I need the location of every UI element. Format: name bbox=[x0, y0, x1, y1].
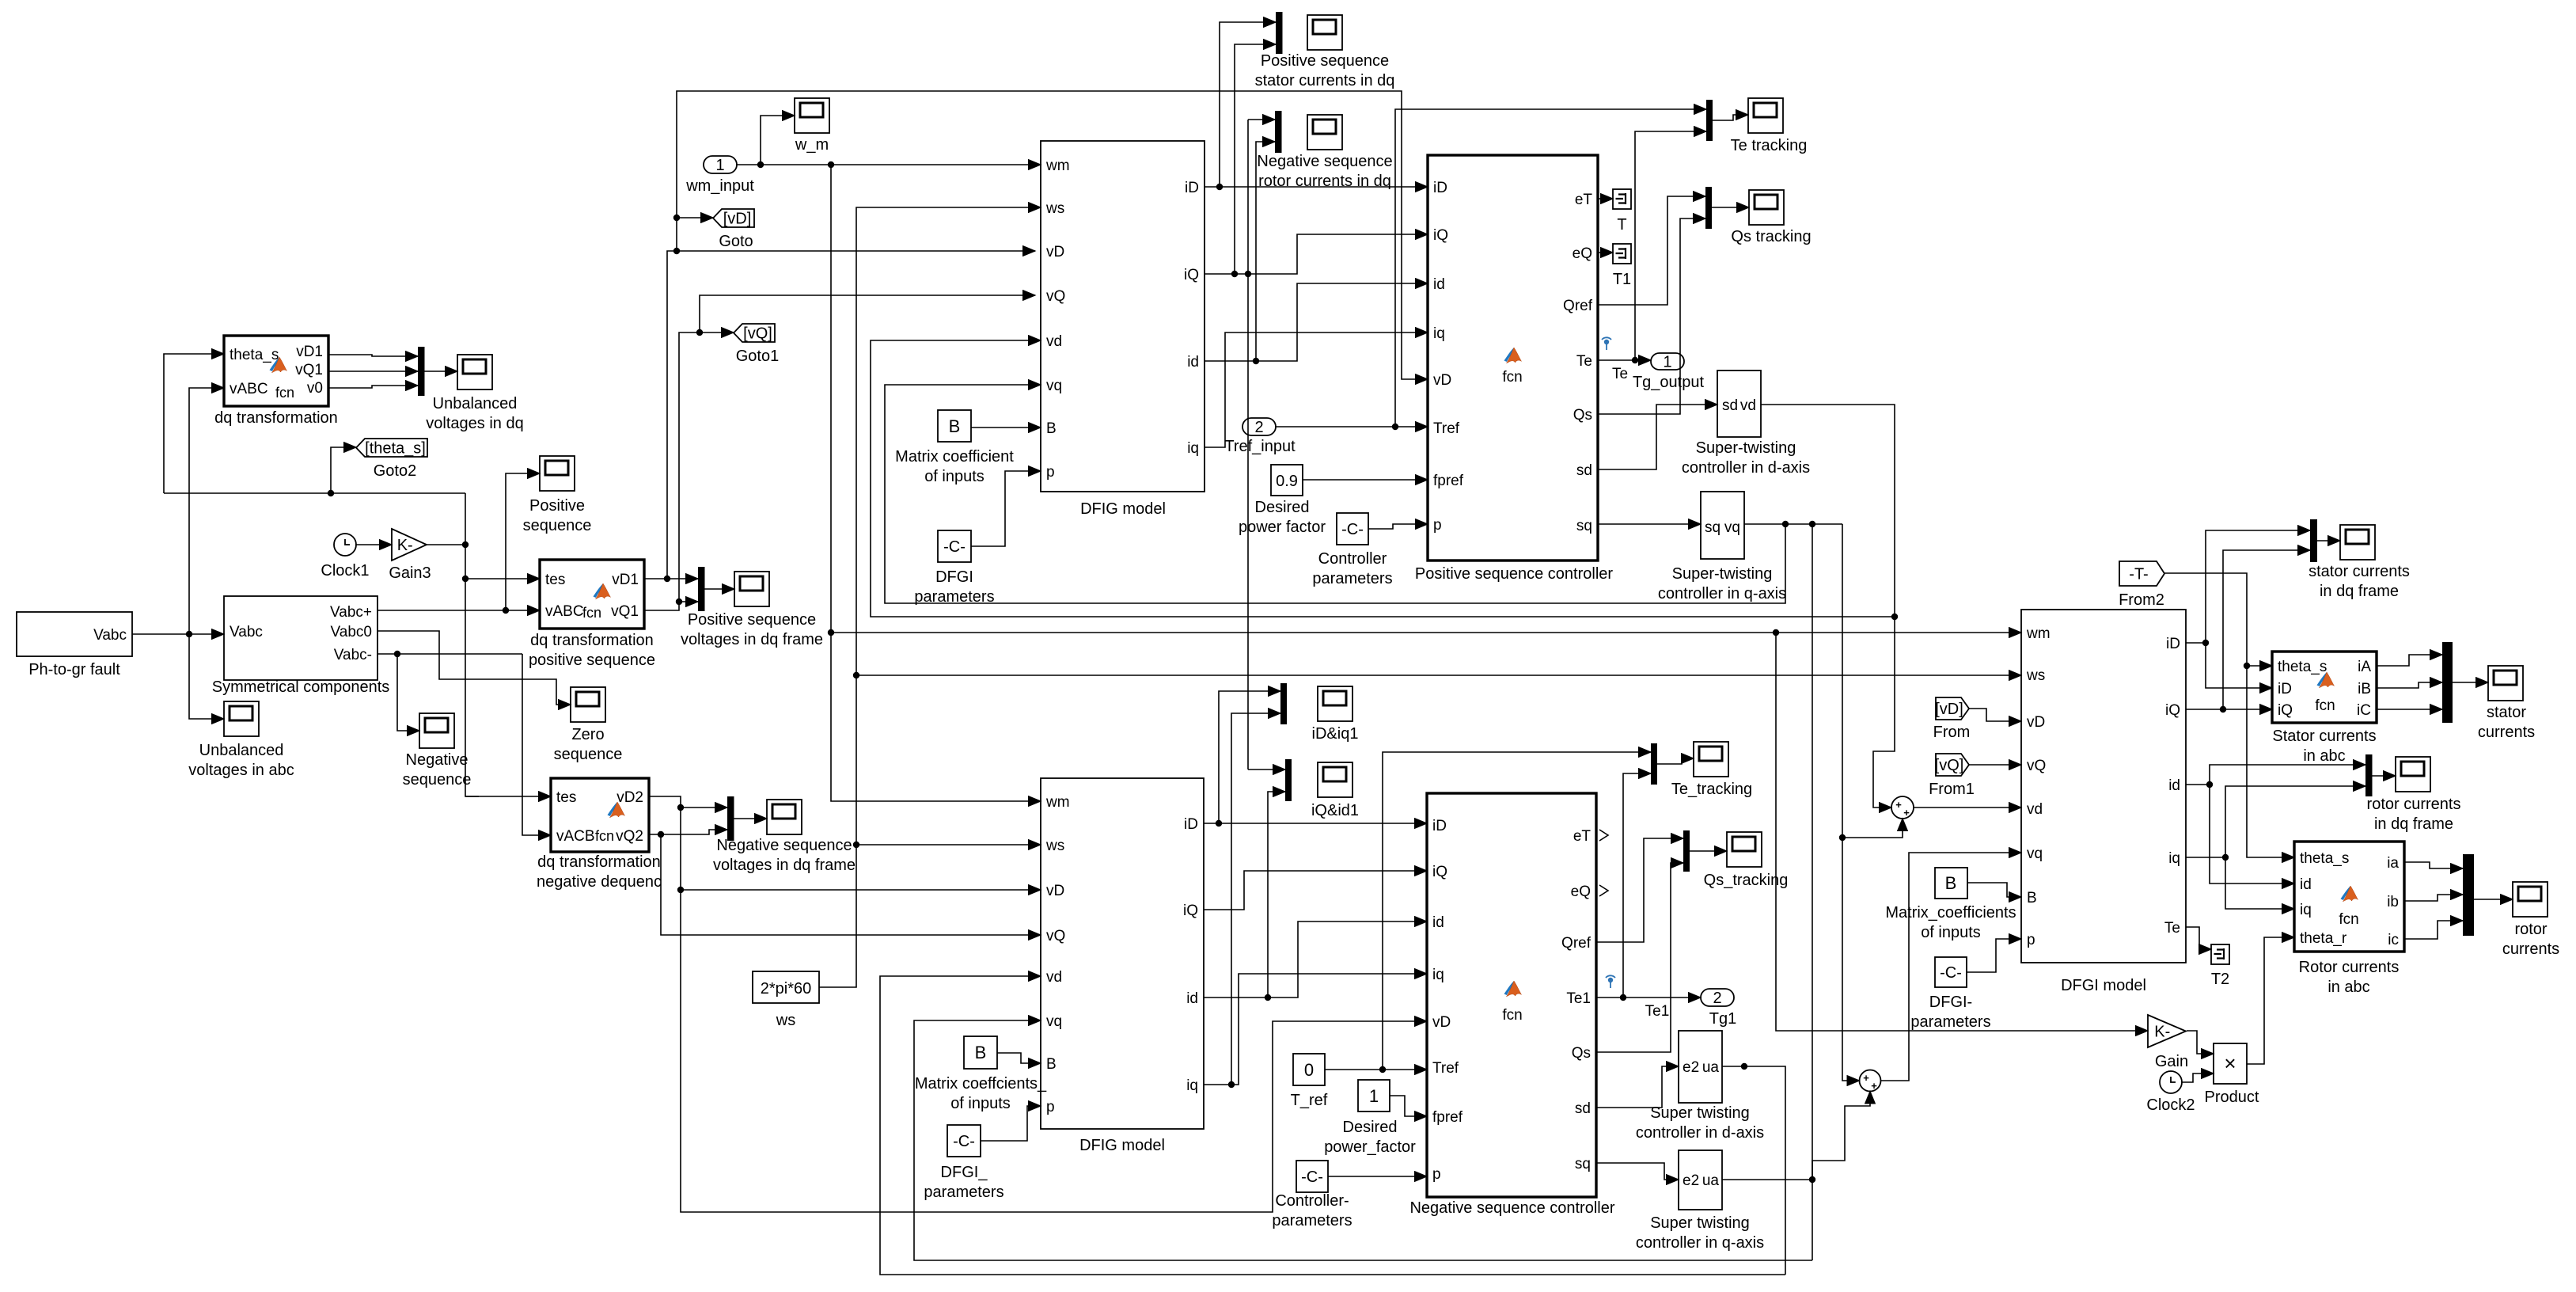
scope Negative sequence voltages in dq frame bbox=[713, 800, 856, 874]
svg-text:DFGI-: DFGI- bbox=[1929, 994, 1972, 1011]
svg-text:-C-: -C- bbox=[1341, 521, 1364, 538]
svg-text:iQ: iQ bbox=[2278, 702, 2293, 719]
svg-text:[vD]: [vD] bbox=[723, 211, 752, 228]
svg-text:From1: From1 bbox=[1929, 781, 1975, 798]
svg-text:ws: ws bbox=[2026, 667, 2045, 684]
block Stator currents in abc (MATLAB fcn) bbox=[2272, 652, 2377, 765]
svg-text:iQ: iQ bbox=[1432, 864, 1447, 880]
svg-text:iA: iA bbox=[2358, 659, 2371, 675]
svg-text:e2: e2 bbox=[1683, 1172, 1699, 1189]
svg-text:-C-: -C- bbox=[1301, 1168, 1323, 1186]
svg-text:theta_s: theta_s bbox=[230, 347, 279, 363]
svg-text:DFGI model: DFGI model bbox=[2061, 977, 2146, 994]
svg-text:0: 0 bbox=[1304, 1060, 1314, 1080]
svg-text:Rotor currents: Rotor currents bbox=[2299, 959, 2400, 976]
svg-text:iQ: iQ bbox=[1184, 267, 1199, 283]
scope Te_tracking bbox=[1671, 742, 1752, 798]
svg-text:1: 1 bbox=[715, 157, 724, 174]
svg-text:Tg1: Tg1 bbox=[1709, 1010, 1736, 1028]
scope rotor currents in dq frame bbox=[2367, 757, 2461, 833]
scope Negative sequence bbox=[403, 713, 472, 788]
svg-text:Positive sequence: Positive sequence bbox=[1261, 52, 1389, 70]
svg-text:Gain: Gain bbox=[2155, 1053, 2188, 1070]
svg-text:-C-: -C- bbox=[943, 538, 966, 556]
mux Unbalanced voltages in dq bbox=[418, 347, 425, 396]
svg-text:Clock1: Clock1 bbox=[321, 562, 369, 579]
wire eT to T bbox=[1598, 198, 1613, 199]
wire stator abc outputs to mux bbox=[2377, 655, 2442, 709]
svg-text:eQ: eQ bbox=[1573, 245, 1592, 262]
svg-text:iD: iD bbox=[1184, 816, 1198, 833]
svg-text:voltages in dq frame: voltages in dq frame bbox=[681, 631, 823, 648]
svg-text:vd: vd bbox=[1740, 397, 1756, 414]
svg-text:Te_tracking: Te_tracking bbox=[1671, 781, 1752, 798]
svg-text:theta_r: theta_r bbox=[2300, 930, 2347, 947]
scope rotor currents bbox=[2502, 882, 2559, 958]
svg-text:vQ: vQ bbox=[1046, 288, 1065, 305]
wire B to bottom DFIG bbox=[997, 1053, 1041, 1063]
constant B (Matrix coeffcients_ of inputs) bbox=[915, 1036, 1047, 1112]
svg-text:[theta_s]: [theta_s] bbox=[365, 440, 426, 458]
signal logging antenna Te1 bbox=[1606, 975, 1615, 988]
wire 1 to fpref bbox=[1390, 1096, 1427, 1116]
block Super-twisting controller in d-axis bbox=[1682, 370, 1810, 477]
svg-text:parameters: parameters bbox=[1312, 570, 1392, 587]
scope Positive sequence stator currents in dq bbox=[1255, 15, 1395, 89]
svg-text:Te: Te bbox=[1612, 366, 1628, 382]
svg-text:Qs: Qs bbox=[1573, 407, 1592, 424]
svg-text:voltages in abc: voltages in abc bbox=[188, 762, 294, 779]
scope iD&iq1 bbox=[1312, 686, 1359, 743]
svg-text:Super-twisting: Super-twisting bbox=[1696, 439, 1796, 457]
svg-text:positive sequence: positive sequence bbox=[529, 652, 655, 669]
outport Tg_output bbox=[1633, 353, 1705, 391]
svg-text:id: id bbox=[1186, 990, 1198, 1007]
svg-text:Positive sequence: Positive sequence bbox=[688, 611, 816, 629]
wire id negative output row bbox=[1204, 792, 1427, 1001]
wire e2ua q-axis output net bbox=[1722, 521, 1870, 1260]
svg-text:sd: sd bbox=[1722, 397, 1738, 414]
svg-text:of inputs: of inputs bbox=[924, 468, 984, 485]
inport Tref_input bbox=[1224, 418, 1296, 455]
svg-text:Vabc: Vabc bbox=[93, 627, 127, 644]
svg-text:Matrix coeffcients_: Matrix coeffcients_ bbox=[915, 1075, 1047, 1092]
svg-text:×: × bbox=[2224, 1051, 2236, 1075]
mux Negative sequence voltages in dq frame bbox=[727, 796, 734, 841]
svg-text:w_m: w_m bbox=[795, 136, 829, 154]
wire Qref to Qs tracking mux bbox=[1598, 196, 1705, 305]
svg-text:From: From bbox=[1933, 724, 1971, 741]
wire From vD to DFGI bbox=[1969, 709, 2021, 721]
svg-text:Negative: Negative bbox=[406, 751, 469, 769]
svg-text:Super twisting: Super twisting bbox=[1650, 1104, 1750, 1122]
wire stator currents mux to scope bbox=[2453, 682, 2488, 683]
wire 0.9 to fpref bbox=[1303, 479, 1428, 481]
svg-text:Te: Te bbox=[1576, 353, 1592, 370]
svg-text:in abc: in abc bbox=[2303, 747, 2345, 765]
svg-text:vD2: vD2 bbox=[616, 789, 643, 806]
wire vD1 positive to mux and vD trunk bbox=[644, 91, 1428, 582]
from tag From1 [vQ] bbox=[1929, 754, 1975, 798]
svg-text:Matrix coefficient: Matrix coefficient bbox=[895, 448, 1014, 465]
svg-text:controller in q-axis: controller in q-axis bbox=[1636, 1234, 1764, 1252]
svg-text:Vabc-: Vabc- bbox=[334, 647, 372, 663]
block dq transformation negative sequence bbox=[537, 778, 662, 891]
svg-text:vq: vq bbox=[1046, 1013, 1062, 1030]
svg-text:B: B bbox=[2027, 890, 2037, 906]
block Product bbox=[2205, 1043, 2259, 1106]
wire iQ negative output row bbox=[1204, 871, 1427, 910]
svg-text:iD: iD bbox=[2278, 681, 2292, 697]
wire sum vq to DFGI bbox=[1881, 853, 2022, 1081]
wire iQ output row bbox=[1205, 44, 1428, 769]
wire vQ2 to mux and bottom DFIG bbox=[649, 830, 1041, 935]
svg-text:in abc: in abc bbox=[2328, 978, 2369, 996]
svg-text:fcn: fcn bbox=[2315, 697, 2335, 714]
svg-text:T2: T2 bbox=[2211, 971, 2229, 988]
wire Qs to Qs_tracking mux bbox=[1596, 863, 1683, 1052]
wire Vabc from fault to Symmetrical components bbox=[132, 388, 224, 719]
inport wm_input bbox=[685, 156, 754, 195]
svg-text:voltages in dq: voltages in dq bbox=[426, 415, 523, 432]
svg-text:theta_s: theta_s bbox=[2278, 659, 2327, 675]
svg-text:fcn: fcn bbox=[275, 385, 294, 401]
svg-text:iq: iq bbox=[2168, 850, 2180, 867]
svg-text:Tref_input: Tref_input bbox=[1224, 438, 1296, 455]
terminator T1 bbox=[1613, 244, 1631, 288]
wire iD output row bbox=[1205, 22, 1428, 190]
from tag From [vD] bbox=[1933, 697, 1971, 741]
svg-text:Negative sequence: Negative sequence bbox=[1257, 153, 1392, 170]
svg-text:dq transformation: dq transformation bbox=[214, 409, 338, 427]
scope stator currents in dq frame bbox=[2309, 525, 2410, 600]
terminator T2 bbox=[2211, 944, 2229, 988]
svg-text:Goto1: Goto1 bbox=[736, 348, 779, 365]
svg-text:Symmetrical components: Symmetrical components bbox=[212, 678, 390, 696]
mux Te_tracking bbox=[1651, 743, 1657, 785]
svg-text:in dq frame: in dq frame bbox=[2320, 583, 2399, 600]
mux Qs_tracking bbox=[1683, 830, 1690, 872]
svg-text:vq: vq bbox=[2027, 845, 2043, 862]
clock Clock2 bbox=[2146, 1071, 2195, 1114]
svg-text:vD1: vD1 bbox=[296, 344, 323, 360]
svg-text:Positive sequence controller: Positive sequence controller bbox=[1415, 565, 1613, 583]
svg-text:sq: sq bbox=[1576, 518, 1592, 534]
svg-text:Negative sequence: Negative sequence bbox=[716, 837, 852, 854]
wire vD2 trunk bbox=[649, 796, 1427, 1212]
svg-text:ua: ua bbox=[1702, 1172, 1720, 1189]
mux Qs tracking bbox=[1705, 187, 1712, 229]
wire -C- to p of DFGI bbox=[1967, 939, 2021, 972]
svg-text:fcn: fcn bbox=[2339, 911, 2358, 928]
wire sq to Super-twisting q-axis bbox=[1598, 523, 1701, 525]
svg-text:vd: vd bbox=[1046, 333, 1062, 350]
svg-text:Negative sequence controller: Negative sequence controller bbox=[1409, 1199, 1614, 1217]
wire Te tracking mux to scope bbox=[1713, 115, 1748, 120]
block Rotor currents in abc (MATLAB fcn) bbox=[2294, 842, 2404, 996]
svg-text:vq: vq bbox=[1724, 519, 1740, 536]
terminator T bbox=[1613, 189, 1631, 234]
wire rotor abc outputs to mux bbox=[2404, 862, 2463, 939]
svg-text:Qs tracking: Qs tracking bbox=[1731, 228, 1811, 245]
svg-text:1: 1 bbox=[1369, 1086, 1379, 1106]
constant -C- Controller- parameters bbox=[1272, 1161, 1352, 1229]
svg-text:iq: iq bbox=[1433, 325, 1445, 342]
wire Vabc- to Negative sequence scope and dq negative bbox=[377, 651, 551, 835]
mux stator currents bbox=[2442, 642, 2453, 723]
wire Clock1 to Gain3 bbox=[355, 544, 392, 545]
scope Negative sequence rotor currents in dq bbox=[1257, 115, 1392, 190]
svg-text:vABC: vABC bbox=[545, 603, 584, 620]
svg-text:ia: ia bbox=[2387, 855, 2399, 872]
svg-text:iq: iq bbox=[2300, 902, 2312, 918]
mux rotor currents in dq frame bbox=[2365, 754, 2373, 796]
svg-text:vd: vd bbox=[2027, 801, 2043, 818]
gain Gain bbox=[2148, 1015, 2188, 1070]
wire iq output row bbox=[1205, 332, 1428, 447]
svg-text:iC: iC bbox=[2357, 702, 2371, 719]
svg-text:+: + bbox=[1895, 799, 1902, 811]
svg-text:fcn: fcn bbox=[582, 605, 601, 621]
wire sd to e2ua d-axis bbox=[1596, 1066, 1679, 1108]
sum block (vq plus) bbox=[1860, 1070, 1881, 1092]
svg-text:T: T bbox=[1617, 216, 1626, 234]
block Positive sequence controller (MATLAB fcn) bbox=[1415, 155, 1613, 583]
svg-text:Qref: Qref bbox=[1563, 298, 1593, 314]
svg-text:B: B bbox=[1046, 1056, 1057, 1073]
mux Positive sequence stator currents in dq bbox=[1276, 12, 1283, 54]
wire Qs tracking mux to scope bbox=[1712, 207, 1749, 208]
svg-text:T_ref: T_ref bbox=[1291, 1092, 1328, 1109]
wire B to DFGI bbox=[1967, 883, 2021, 897]
svg-text:Desired: Desired bbox=[1343, 1119, 1398, 1136]
svg-text:in dq frame: in dq frame bbox=[2374, 815, 2453, 833]
svg-text:B: B bbox=[949, 416, 961, 436]
block Super-twisting controller in q-axis bbox=[1658, 492, 1786, 602]
svg-text:+: + bbox=[1863, 1072, 1869, 1084]
svg-text:ws: ws bbox=[1045, 838, 1064, 854]
svg-text:DFGI: DFGI bbox=[935, 568, 973, 586]
svg-text:0.9: 0.9 bbox=[1276, 473, 1298, 490]
wire Te to Tg_output and Te tracking mux bbox=[1598, 131, 1706, 363]
constant B (Matrix_coefficients of inputs) bbox=[1885, 868, 2016, 941]
wire Qs_tracking mux to scope bbox=[1690, 850, 1727, 852]
svg-text:+: + bbox=[1871, 1080, 1877, 1092]
scope stator currents bbox=[2478, 666, 2535, 741]
svg-text:parameters: parameters bbox=[924, 1184, 1003, 1201]
wire Clock2 to Product bbox=[2182, 1073, 2214, 1082]
wire sd to Super-twisting d-axis bbox=[1598, 405, 1717, 469]
clock Clock1 bbox=[321, 534, 369, 579]
wire DFGI iq output bbox=[2186, 786, 2365, 909]
svg-text:v0: v0 bbox=[307, 380, 323, 397]
svg-text:stator currents in dq: stator currents in dq bbox=[1255, 72, 1395, 89]
svg-text:iB: iB bbox=[2358, 681, 2371, 697]
svg-text:vABC: vABC bbox=[230, 381, 268, 397]
mux Positive sequence voltages in dq frame bbox=[698, 567, 705, 611]
svg-text:wm_input: wm_input bbox=[685, 177, 754, 195]
svg-text:B: B bbox=[975, 1043, 987, 1062]
svg-text:Clock2: Clock2 bbox=[2146, 1096, 2195, 1114]
constant -C- DFGI- parameters bbox=[1910, 957, 1990, 1031]
svg-text:Controller-: Controller- bbox=[1275, 1192, 1349, 1210]
svg-text:vD: vD bbox=[2027, 714, 2045, 731]
constant 1 Desired power_factor bbox=[1324, 1080, 1416, 1156]
wire mux to scope Positive sequence voltages bbox=[705, 588, 735, 590]
svg-text:Gain3: Gain3 bbox=[389, 564, 431, 582]
svg-text:stator: stator bbox=[2487, 704, 2526, 721]
wire Product to theta_r bbox=[2247, 937, 2294, 1064]
block dq transformation (MATLAB fcn) bbox=[214, 336, 338, 427]
block DFIG model (positive sequence) bbox=[1041, 141, 1205, 518]
svg-text:id: id bbox=[1432, 914, 1444, 931]
svg-text:vACB: vACB bbox=[556, 828, 595, 845]
wire ws trunk from 2*pi*60 bbox=[819, 207, 2021, 987]
svg-text:Controller: Controller bbox=[1318, 550, 1387, 568]
svg-text:eT: eT bbox=[1573, 828, 1592, 845]
svg-text:[vQ]: [vQ] bbox=[1935, 757, 1964, 774]
svg-text:voltages in dq frame: voltages in dq frame bbox=[713, 857, 856, 874]
svg-text:p: p bbox=[2027, 932, 2035, 948]
svg-text:Tref: Tref bbox=[1433, 420, 1460, 437]
svg-text:DFIG model: DFIG model bbox=[1080, 500, 1166, 518]
svg-text:wm: wm bbox=[1045, 794, 1070, 811]
svg-text:theta_s: theta_s bbox=[2300, 850, 2349, 867]
wire Qref to Qs_tracking mux bbox=[1596, 838, 1683, 942]
svg-text:wm: wm bbox=[2026, 625, 2051, 642]
svg-text:-T-: -T- bbox=[2129, 566, 2148, 583]
svg-text:sd: sd bbox=[1576, 462, 1592, 479]
svg-text:id: id bbox=[1187, 354, 1199, 370]
svg-text:DFGI_: DFGI_ bbox=[941, 1164, 988, 1181]
block dq transformation positive sequence bbox=[529, 560, 655, 669]
svg-text:iQ: iQ bbox=[1183, 902, 1198, 919]
constant -C- Controller parameters bbox=[1312, 513, 1392, 587]
constant B (Matrix coefficient of inputs) bbox=[895, 410, 1014, 485]
svg-text:Goto: Goto bbox=[719, 233, 753, 250]
svg-text:Te1: Te1 bbox=[1645, 1003, 1670, 1020]
wire DFGI id output bbox=[2186, 765, 2365, 883]
svg-text:iD&iq1: iD&iq1 bbox=[1312, 725, 1359, 743]
svg-text:ua: ua bbox=[1702, 1059, 1720, 1076]
wire Gain3 output theta_s trunk bbox=[164, 354, 551, 796]
svg-text:iq: iq bbox=[1432, 967, 1444, 983]
svg-text:[vQ]: [vQ] bbox=[743, 325, 772, 343]
scope Unbalanced voltages in dq bbox=[426, 355, 523, 432]
wire stator dq mux to scope bbox=[2317, 540, 2340, 541]
svg-text:vQ2: vQ2 bbox=[616, 828, 643, 845]
svg-text:vD: vD bbox=[1433, 372, 1451, 389]
svg-text:vQ1: vQ1 bbox=[295, 362, 323, 378]
svg-text:fcn: fcn bbox=[595, 828, 614, 844]
scope Qs_tracking bbox=[1704, 832, 1789, 889]
wire wm branch to Gain (bottom right) bbox=[1776, 633, 2148, 1031]
svg-text:Positive: Positive bbox=[529, 497, 585, 515]
svg-text:ws: ws bbox=[1045, 200, 1064, 217]
svg-text:Stator currents: Stator currents bbox=[2272, 728, 2376, 745]
svg-text:rotor currents: rotor currents bbox=[2367, 796, 2461, 813]
wire T_ref to Tref bbox=[1325, 752, 1651, 1073]
svg-text:of inputs: of inputs bbox=[950, 1095, 1011, 1112]
wire Gain to Product bbox=[2187, 1031, 2214, 1054]
block Negative sequence controller (MATLAB fcn) bbox=[1409, 793, 1614, 1217]
wire iq negative output row bbox=[1204, 713, 1427, 1088]
svg-text:currents: currents bbox=[2478, 724, 2535, 741]
label Te at controller output bbox=[1612, 366, 1628, 382]
svg-text:dq transformation: dq transformation bbox=[537, 853, 661, 871]
scope Unbalanced voltages in abc bbox=[188, 701, 294, 779]
svg-text:Zero: Zero bbox=[571, 726, 604, 743]
svg-text:ic: ic bbox=[2388, 932, 2399, 948]
wire DFGI iD output bbox=[2186, 530, 2310, 688]
svg-text:eT: eT bbox=[1575, 192, 1593, 208]
svg-text:Qref: Qref bbox=[1561, 935, 1592, 952]
svg-text:Desired: Desired bbox=[1255, 499, 1310, 516]
svg-text:Unbalanced: Unbalanced bbox=[433, 395, 518, 412]
wire mux to scope Unbalanced voltages in dq bbox=[425, 370, 458, 372]
svg-text:Qs: Qs bbox=[1572, 1045, 1591, 1062]
svg-text:Te tracking: Te tracking bbox=[1731, 137, 1808, 154]
svg-text:sd: sd bbox=[1575, 1100, 1591, 1117]
block DFGI model (full) bbox=[2021, 610, 2186, 994]
outport Tg1 bbox=[1701, 989, 1736, 1028]
wire DFGI iQ output bbox=[2186, 550, 2310, 712]
wire Vabc+ to dq positive and Positive sequence scope bbox=[377, 473, 540, 614]
signal logging antenna Te bbox=[1602, 337, 1611, 350]
from tag From2 -T- bbox=[2119, 561, 2164, 609]
svg-text:Unbalanced: Unbalanced bbox=[199, 742, 284, 759]
scope Te tracking bbox=[1731, 98, 1808, 154]
svg-text:T1: T1 bbox=[1613, 271, 1631, 288]
wire iD negative output row bbox=[1204, 691, 1427, 826]
constant 0.9 Desired power factor bbox=[1239, 465, 1326, 536]
svg-text:stator currents: stator currents bbox=[2309, 563, 2410, 580]
svg-text:[vD]: [vD] bbox=[1935, 701, 1963, 718]
svg-text:ws: ws bbox=[776, 1012, 795, 1029]
svg-text:parameters: parameters bbox=[1910, 1013, 1990, 1031]
svg-text:wm: wm bbox=[1045, 158, 1070, 174]
wire vd plus loop to top DFIG and sum bbox=[871, 340, 1898, 807]
label Te1 at controller output bbox=[1645, 1003, 1670, 1020]
wire vD1 vQ1 v0 to mux bbox=[328, 355, 418, 388]
svg-text:iq: iq bbox=[1187, 440, 1199, 457]
svg-text:2*pi*60: 2*pi*60 bbox=[761, 980, 812, 997]
wire -C- to p of bottom DFIG bbox=[981, 1106, 1041, 1141]
constant 0 T_ref bbox=[1291, 1054, 1328, 1109]
block Super twisting controller in d-axis (e2 ua) bbox=[1636, 1031, 1764, 1142]
wire DFGI Te output to T2 bbox=[2186, 927, 2211, 949]
svg-text:K-: K- bbox=[2154, 1024, 2170, 1041]
svg-text:p: p bbox=[1433, 517, 1442, 534]
svg-text:+: + bbox=[1903, 807, 1910, 819]
goto tag Goto2 [theta_s] bbox=[356, 439, 427, 480]
constant -C- DFGI parameters bbox=[914, 530, 994, 606]
svg-text:controller in d-axis: controller in d-axis bbox=[1682, 459, 1810, 477]
svg-text:Tg_output: Tg_output bbox=[1633, 374, 1705, 391]
wire From2 theta_s trunk bbox=[2164, 573, 2294, 857]
mux Negative sequence rotor currents in dq bbox=[1275, 111, 1282, 153]
svg-text:Vabc: Vabc bbox=[230, 624, 263, 640]
scope Positive sequence bbox=[523, 456, 592, 534]
block Symmetrical components bbox=[212, 596, 390, 696]
mux iD&iq1 bbox=[1280, 683, 1287, 724]
svg-text:Matrix_coefficients: Matrix_coefficients bbox=[1885, 904, 2016, 921]
mux stator currents in dq frame bbox=[2310, 519, 2317, 562]
wire B to DFIG bbox=[971, 427, 1041, 428]
svg-text:B: B bbox=[1046, 420, 1057, 437]
scope w_m bbox=[795, 98, 829, 154]
wire sq to e2ua q-axis bbox=[1596, 1163, 1679, 1180]
